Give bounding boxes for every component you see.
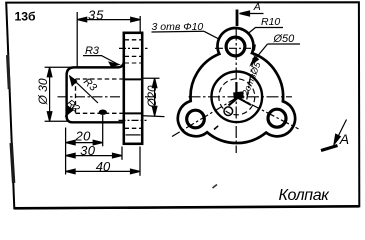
small hole D5 xyxy=(224,107,233,116)
flange inner solid line xyxy=(126,134,141,136)
axis centerline xyxy=(58,96,156,98)
flange hole top hidden xyxy=(125,39,142,41)
flange hole bottom hidden xyxy=(125,55,142,57)
svg-text:R10: R10 xyxy=(261,16,280,28)
svg-text:A: A xyxy=(253,1,261,13)
label R10 leader xyxy=(248,28,283,34)
svg-text:13б: 13б xyxy=(15,10,37,24)
dim 30 right ext xyxy=(121,147,123,160)
svg-text:Колпак: Колпак xyxy=(279,187,331,204)
border frame left dark bar 1 xyxy=(8,55,10,89)
svg-text:Ø 30: Ø 30 xyxy=(36,78,50,105)
svg-text:Ø50: Ø50 xyxy=(273,33,296,45)
dim 40 line xyxy=(66,169,140,174)
body outline xyxy=(67,61,124,122)
2 otv D5 centerline xyxy=(247,45,256,100)
bore hidden line left end xyxy=(75,79,77,113)
leader dot on bore xyxy=(99,110,107,115)
inner boss circle xyxy=(212,72,263,123)
label 3 otv underline + leader xyxy=(152,31,231,47)
flange bottom hole hidden xyxy=(125,127,142,129)
bottom dims: left common ext xyxy=(65,128,67,175)
dim D30 line xyxy=(47,67,52,121)
bore hidden line bottom (body) xyxy=(76,112,124,114)
dim 35 ext right xyxy=(139,16,141,32)
section arrow A top bar xyxy=(236,10,239,27)
small speck xyxy=(213,185,218,189)
label D50 leader xyxy=(251,44,300,65)
section arrow A bottom bar xyxy=(321,146,338,151)
flange outline xyxy=(124,33,142,144)
label R3 top leader xyxy=(83,56,119,67)
center thick strokes xyxy=(235,82,237,97)
flange top hole centerline xyxy=(119,47,148,49)
svg-text:40: 40 xyxy=(96,159,111,174)
top hole horizontal centerline xyxy=(215,47,251,49)
valley tick xyxy=(214,126,218,130)
dim D20 ext bottom xyxy=(143,115,164,118)
label R3 inner leader xyxy=(70,76,98,103)
dim D30 ext bottom xyxy=(45,120,69,122)
flange outline (union of circle and 3 lobes) xyxy=(178,28,295,143)
flange hidden line xyxy=(125,62,142,64)
dim 35 line xyxy=(77,17,140,22)
bottom holes centerline xyxy=(119,119,147,121)
bore dashed circle xyxy=(219,79,255,115)
dim D20 ext top xyxy=(143,77,159,79)
section arrow A top arrow xyxy=(240,11,264,16)
horizontal centerline xyxy=(189,96,293,98)
bore solid top (flange) xyxy=(124,78,142,80)
vertical centerline xyxy=(235,29,237,154)
dim D20 line xyxy=(152,78,157,116)
hole lower-right xyxy=(268,109,286,127)
bore hidden line top (body) xyxy=(76,78,124,80)
dim D30 ext top xyxy=(45,66,72,68)
lower-left lobe centerline xyxy=(172,98,237,137)
svg-text:Ø20: Ø20 xyxy=(147,85,159,108)
border frame bottom thick xyxy=(14,206,359,208)
dim 20 line xyxy=(66,140,103,145)
section arrow A bottom arrow xyxy=(334,120,347,145)
dim 30 line xyxy=(66,153,122,158)
ext from dot xyxy=(102,115,104,146)
label R2 leader xyxy=(66,106,75,116)
hole lower-left xyxy=(187,110,205,128)
dim 35 ext left xyxy=(76,12,78,67)
border frame left dark bar 2 xyxy=(11,143,13,183)
lower-right lobe centerline xyxy=(237,97,299,129)
dim 40 right ext xyxy=(139,147,141,176)
svg-text:35: 35 xyxy=(88,8,104,23)
bore solid bottom (flange) xyxy=(124,112,142,114)
hole top xyxy=(226,37,245,56)
svg-text:30: 30 xyxy=(80,143,96,158)
svg-text:A: A xyxy=(339,131,349,147)
svg-text:20: 20 xyxy=(74,129,91,144)
